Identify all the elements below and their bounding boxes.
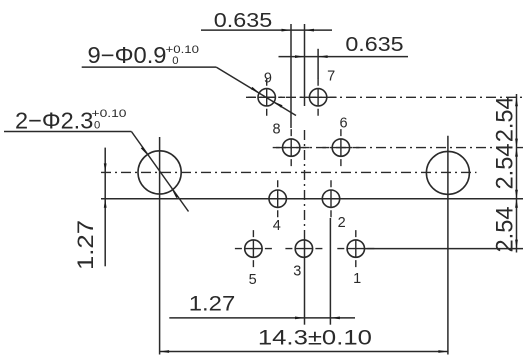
extension line left hole (x=159.6) — [159, 137, 161, 355]
extension line pin7 column (x=318.1) — [317, 49, 319, 79]
row B centerline (pins 8,6) — [276, 147, 523, 149]
bottom dimension 14.3 line — [160, 351, 448, 353]
svg-text:14.3±0.10: 14.3±0.10 — [258, 326, 372, 350]
pin 6 — [322, 129, 359, 166]
svg-text:0.635: 0.635 — [345, 33, 403, 56]
dimension 0.635 (first) arrowheads — [282, 29, 315, 32]
svg-text:9: 9 — [264, 71, 272, 87]
pin 3 — [285, 240, 322, 257]
dimension 0.635 (second) line — [279, 56, 409, 58]
mounting holes centerline — [101, 171, 477, 173]
extension line right hole (x=447.9) — [447, 136, 449, 355]
svg-text:9−Φ0.9: 9−Φ0.9 — [88, 42, 167, 68]
svg-text:2: 2 — [338, 215, 346, 231]
row D extension right from pin1 — [365, 248, 524, 250]
bottom dimension 1.27 line — [169, 317, 355, 319]
svg-text:2.54: 2.54 — [491, 96, 518, 142]
svg-text:5: 5 — [249, 272, 257, 288]
svg-text:+0.10: +0.10 — [92, 108, 127, 120]
right chain dimension line 2.54 — [516, 94, 518, 253]
bottom dimension 1.27 arrowheads — [295, 317, 340, 320]
left dimension 1.27 arrowheads — [104, 163, 107, 207]
mounting hole left — [138, 151, 181, 194]
svg-text:3: 3 — [293, 263, 301, 279]
extension line pin2 column (x=330.4) — [329, 218, 331, 325]
pin 1 — [337, 230, 374, 267]
label 9-phi0.9 underline and leader — [82, 67, 296, 115]
label 2-phi2.3 underline and leader — [4, 132, 189, 212]
pin 4 — [269, 180, 286, 217]
extension line pin8 column (x=291) — [290, 24, 292, 128]
svg-text:2−Φ2.3: 2−Φ2.3 — [15, 107, 93, 133]
pin 9 — [248, 79, 285, 116]
label 9-phi0.9 leader arrowheads — [251, 87, 283, 108]
bottom dimension 14.3 arrowheads — [160, 350, 448, 353]
right chain dimension arrowheads — [515, 97, 518, 248]
row A centerline (pins 9,7) — [246, 96, 523, 98]
svg-text:2.54: 2.54 — [491, 144, 518, 190]
extension line pin3 column bottom — [304, 240, 306, 325]
svg-text:+0.10: +0.10 — [166, 44, 200, 56]
svg-text:4: 4 — [273, 218, 281, 234]
svg-text:0: 0 — [94, 120, 100, 132]
row C line (pins 4,2, solid) — [101, 198, 523, 200]
svg-text:2.54: 2.54 — [491, 207, 518, 253]
dimension 0.635 (second) arrowheads — [295, 55, 328, 58]
svg-text:7: 7 — [327, 69, 335, 85]
pin 5 — [235, 230, 272, 267]
pin 8 — [273, 129, 310, 166]
svg-text:0.635: 0.635 — [214, 9, 273, 32]
svg-text:0: 0 — [172, 55, 178, 67]
pin 7 — [300, 79, 337, 116]
extension line center column top (x=304.5) — [304, 24, 306, 106]
centerline center column (dash-dot) — [304, 130, 306, 240]
pin 2 — [322, 180, 339, 217]
mounting hole right — [426, 151, 469, 194]
svg-text:1.27: 1.27 — [73, 220, 98, 270]
left dimension 1.27 line — [104, 148, 106, 267]
svg-text:8: 8 — [272, 122, 280, 138]
svg-text:1: 1 — [353, 271, 361, 287]
dimension 0.635 (first) line — [201, 29, 332, 31]
svg-text:6: 6 — [339, 116, 347, 132]
svg-text:1.27: 1.27 — [189, 292, 236, 316]
label 2-phi2.3 leader arrowheads — [141, 147, 179, 198]
